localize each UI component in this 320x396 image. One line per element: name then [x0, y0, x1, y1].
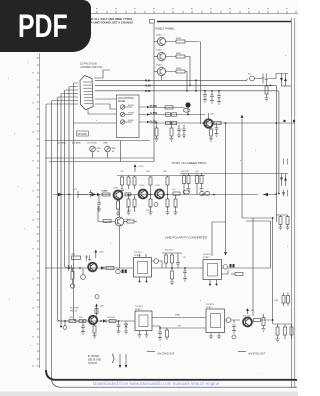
ground under C206 — [217, 102, 221, 105]
svg-text:, . .: , . . — [258, 371, 262, 375]
small parts left of diode — [78, 191, 88, 198]
svg-text:CONNECTOR CN1: CONNECTOR CN1 — [80, 65, 103, 69]
left ruler numerals — [32, 72, 34, 367]
arrow +5V at Q407 — [247, 310, 249, 314]
svg-text:G.IN: G.IN — [145, 84, 151, 88]
capacitor C404 — [176, 253, 180, 268]
svg-text:R201: R201 — [176, 38, 182, 40]
resistor pair R415 R416 above line right — [196, 174, 198, 176]
svg-text:TR41: TR41 — [139, 185, 145, 187]
junction dots polarity — [68, 267, 186, 269]
wire bus left vertical 1 — [46, 104, 78, 370]
wire Q201 base stub — [154, 41, 157, 43]
wire x225 drop — [225, 123, 227, 222]
resistor R411 below line — [166, 199, 169, 207]
resistor R301 on row1 — [165, 106, 173, 109]
svg-text:E1: E1 — [248, 74, 251, 76]
wire bus left vertical 5 — [65, 90, 79, 268]
svg-text:TLP421: TLP421 — [135, 306, 143, 308]
capacitor C410 below line — [97, 195, 101, 212]
svg-text:+12V: +12V — [99, 252, 105, 254]
opto U402 outer box — [203, 260, 222, 280]
svg-text:R33 R34: R33 R34 — [107, 317, 116, 319]
capacitor C206 hanging — [217, 91, 221, 102]
junction dots on bus — [204, 85, 271, 92]
resistor R440 after Q401 — [125, 193, 131, 196]
rail small y253 — [162, 252, 182, 254]
junction dot Q202 drop — [189, 85, 191, 87]
svg-text:PC817: PC817 — [206, 307, 213, 309]
ground stubs under U404 — [209, 333, 213, 339]
svg-text:R31: R31 — [69, 317, 74, 319]
capacitor C303 hang — [182, 125, 186, 138]
svg-text:+5V: +5V — [100, 306, 104, 308]
circle node T6 — [81, 275, 86, 280]
capacitor C401 — [120, 189, 124, 194]
wire into U402 — [166, 267, 223, 269]
svg-text:SYNC ON GREEN PROC.: SYNC ON GREEN PROC. — [172, 161, 208, 165]
pot VR2 — [105, 146, 111, 152]
svg-text:R46: R46 — [127, 210, 132, 212]
svg-text:R28: R28 — [72, 254, 77, 256]
parts under link 2 — [166, 330, 169, 337]
step rail y218 — [242, 217, 273, 219]
wire video drop x200.5 — [200, 42, 202, 125]
svg-text:R2: R2 — [178, 326, 182, 328]
transistor Q203 — [157, 67, 165, 75]
wire Q203 to R203 to drop — [166, 72, 187, 91]
down arrows annotation — [120, 354, 126, 365]
svg-text:+9V: +9V — [210, 114, 214, 116]
rail bottom right y324 — [273, 323, 292, 325]
wire bottom main y321 — [57, 320, 136, 322]
signal row with labels — [45, 140, 150, 142]
capacitor C301 below — [215, 123, 219, 136]
svg-text:+5V SYNC OUT: +5V SYNC OUT — [157, 353, 175, 356]
svg-text:G.SW: G.SW — [128, 113, 135, 115]
junction dot Q203 drop — [186, 90, 188, 92]
ground stubs under U403 — [138, 331, 142, 338]
circle node T1 — [154, 259, 159, 264]
opto U401 inner box — [138, 262, 148, 274]
svg-text:L40: L40 — [172, 189, 176, 191]
wire Q404 connections — [98, 199, 120, 268]
diode D403 — [101, 266, 104, 269]
opto U404 inner box — [211, 314, 221, 328]
dash before labels — [147, 351, 246, 353]
svg-text:Q202: Q202 — [156, 50, 162, 52]
resistor R307 hang row3 — [171, 125, 173, 128]
wire link lower U403 to U404 — [152, 326, 206, 328]
bottom scan shadow — [0, 392, 298, 396]
wire U402 lower pin — [222, 270, 229, 274]
svg-text:C4: C4 — [74, 189, 78, 191]
capacitor C205 hanging — [210, 91, 214, 101]
resistor R434 vertical — [284, 327, 287, 335]
svg-text:PC817: PC817 — [203, 257, 210, 259]
resistor R435 vertical — [290, 327, 293, 335]
junction dot rail — [272, 217, 274, 219]
junction dots bottom-left — [64, 320, 161, 329]
svg-text:B.IN: B.IN — [145, 89, 150, 93]
resistor R404 hanging — [149, 177, 152, 185]
svg-text:C44: C44 — [195, 171, 200, 173]
wire T2 to step — [228, 267, 271, 269]
wire row sw3 y123 — [150, 122, 295, 124]
resistor R422 — [106, 267, 114, 270]
resistor R215 vertical — [266, 84, 268, 87]
wire row sw1 y107.5 — [150, 107, 185, 109]
parts under link 1 — [158, 328, 162, 340]
SECTION:CHROME — [33, 9, 298, 369]
arrow +5V above Q406 — [96, 306, 98, 316]
svg-text:1W SYNC: 1W SYNC — [87, 143, 97, 145]
transistor Q401 dark — [114, 191, 123, 200]
wire x242 drop with up arrow — [241, 119, 243, 219]
opto U404 outer box — [206, 309, 225, 333]
resistor R407 below line — [117, 201, 120, 209]
svg-text:R202: R202 — [176, 53, 182, 55]
svg-text:PANEL: PANEL — [118, 100, 126, 103]
svg-text:+5V: +5V — [250, 310, 254, 312]
ground under R215 — [265, 94, 269, 101]
circle node T4 — [232, 335, 236, 339]
resistor R302 pair on row2 — [166, 113, 171, 116]
svg-text:TR42: TR42 — [155, 185, 161, 187]
opto U403 outer box — [135, 311, 152, 331]
svg-text:1K: 1K — [112, 151, 115, 153]
svg-text:PC817: PC817 — [135, 309, 142, 311]
svg-text:R35 1K: R35 1K — [70, 311, 78, 313]
ground under C205 — [210, 101, 214, 104]
main sync signal line y194.5 — [53, 193, 276, 195]
svg-text:GND: GND — [103, 143, 108, 145]
wire bus left vertical 4 — [61, 94, 78, 327]
video panel left border — [153, 24, 155, 162]
ground circle under R421 — [70, 284, 74, 288]
wire x253 drop — [252, 218, 254, 316]
resistor R202 — [176, 55, 185, 58]
wire pots row lower 1 — [45, 157, 154, 159]
svg-text:15 PIN D-SUB: 15 PIN D-SUB — [80, 62, 97, 66]
svg-text:VR1: VR1 — [97, 148, 102, 150]
svg-text:TLP421: TLP421 — [206, 304, 214, 306]
resistor R405 hanging — [166, 177, 169, 185]
capacitor C207 — [261, 74, 267, 84]
capacitor C403 series — [68, 265, 71, 271]
resistor R425 below — [171, 271, 174, 279]
wire connector to video bus row 1 — [95, 79, 247, 81]
resistor R429 — [109, 320, 116, 323]
diode pair D402 right edge — [282, 174, 286, 187]
resistor R419 upper row — [72, 256, 81, 259]
svg-text:G.SW: G.SW — [150, 111, 157, 115]
junction dots sync right — [275, 193, 279, 195]
resistor R409 below line — [133, 199, 136, 207]
resistor R403 hanging — [133, 177, 136, 185]
svg-text:LINK: LINK — [175, 315, 180, 317]
wire x270.5 drop — [270, 221, 272, 268]
opto U403 inner box — [139, 315, 148, 327]
circle node T5 — [63, 326, 67, 330]
svg-text:R.SW: R.SW — [128, 105, 135, 107]
resistor pair R318 R319 upper right — [276, 215, 287, 217]
svg-text:Q201: Q201 — [156, 35, 162, 37]
bottom border thin line — [52, 378, 298, 387]
resistor R436 — [79, 320, 86, 323]
resistor R433 vertical — [276, 327, 279, 335]
diode D401 on line — [94, 193, 100, 197]
arrowhead mid line left — [263, 193, 268, 197]
ground under C204 — [203, 100, 207, 103]
connector CN1 pins — [83, 82, 93, 104]
bracket after notes — [112, 354, 114, 363]
wire control panel row3 stub — [74, 122, 117, 124]
capacitor C408 vertical — [81, 323, 85, 335]
svg-text:C42: C42 — [120, 171, 125, 173]
capacitor C402 left — [89, 190, 93, 198]
wire connector to control panel stub 2 — [95, 104, 117, 109]
top ruler line — [85, 13, 298, 15]
transistor Q301 dark — [204, 119, 212, 127]
resistor R306 hang row3 — [156, 125, 158, 128]
opto U401 outer box — [134, 258, 152, 278]
capacitor C407 — [232, 320, 236, 333]
resistor R432 vertical — [262, 318, 265, 326]
svg-text:C45: C45 — [274, 300, 279, 302]
diode D405 vertical — [124, 321, 128, 334]
wire connector to control panel stub 1 — [95, 98, 117, 100]
connector CN1 body — [80, 76, 93, 110]
resistor R418 right of Q404 — [124, 221, 127, 223]
ground cluster right of sync — [187, 189, 191, 192]
resistor R408 below line — [127, 199, 130, 207]
wire row sw2 y114.5 — [150, 114, 205, 116]
resistor R424 vertical — [171, 255, 174, 263]
PDF badge — [0, 0, 91, 52]
wire link U403 to U404 — [152, 317, 206, 319]
bottom border heavy line — [46, 370, 297, 380]
opto U402 inner box — [208, 264, 218, 277]
junction dots sync line — [128, 194, 215, 196]
arrowheads control panel — [147, 106, 150, 123]
resistor R305 below Q301 — [210, 129, 213, 136]
transistor Q202 — [157, 52, 165, 60]
switch SW2 — [120, 112, 124, 116]
resistor pair upper right bottom — [283, 293, 285, 296]
wire connector top pin — [94, 70, 110, 78]
circle node pair — [200, 191, 204, 195]
diode D201 pair right — [282, 74, 286, 87]
parts right bottom cluster — [274, 367, 276, 369]
small marks right pair — [284, 159, 288, 165]
row labels dark — [150, 104, 157, 124]
left ruler ticks — [37, 58, 40, 366]
wire pots row lower 2 — [49, 161, 154, 163]
step wire y222 — [212, 222, 226, 256]
watermark — [93, 381, 219, 386]
wire bus left vertical 3 — [58, 97, 79, 321]
svg-text:R12 R13: R12 R13 — [165, 250, 174, 252]
wire connector to video bus row 2 — [95, 85, 276, 222]
wire bus left vertical 6 — [69, 87, 78, 269]
wire Q203 base stub — [154, 71, 157, 73]
resistor R426 at U402 — [231, 273, 235, 275]
inductor L301 ellipse — [183, 108, 189, 112]
switch labels — [128, 105, 135, 122]
arrow end x225 — [225, 222, 227, 252]
wire cross drop x196 — [195, 80, 197, 91]
arrow +12V — [134, 166, 136, 172]
resistor R412 below line — [174, 199, 177, 207]
capacitor C409 vertical — [117, 321, 121, 334]
label SP GRN box — [77, 131, 89, 136]
step rail y221 — [246, 220, 271, 222]
junction node dark blob — [185, 102, 190, 107]
transistor Q404 — [115, 217, 124, 226]
top ruler numerals — [96, 8, 288, 10]
svg-text:VR2: VR2 — [112, 148, 117, 150]
svg-text:SYNC B: SYNC B — [88, 362, 97, 365]
dark marks right of T2 — [230, 264, 232, 267]
svg-text:LINE POLARITY CONVERTER: LINE POLARITY CONVERTER — [165, 236, 208, 240]
junction dots midright — [156, 114, 296, 124]
circle node below sync — [154, 203, 158, 207]
transistor Q407 dark — [243, 318, 252, 327]
transistor Q403 dark — [155, 190, 164, 199]
main wire y268 left — [45, 267, 133, 269]
svg-text:+5V SYNC OUT: +5V SYNC OUT — [248, 353, 266, 356]
switch SW1 — [120, 105, 124, 109]
tiny labels texture sync — [120, 171, 200, 212]
svg-text:B.SW: B.SW — [128, 120, 135, 122]
video panel top heavy line — [150, 20, 155, 24]
spark gap E1 — [247, 79, 249, 81]
scan speckle noise — [8, 55, 288, 346]
diode D404 — [103, 319, 106, 322]
resistor R410 below line — [149, 199, 152, 207]
wire connector to video bus row 3 — [95, 91, 279, 194]
resistor R428 vertical under Q406 — [93, 326, 96, 333]
control panel box — [117, 95, 140, 138]
connector CN1 bottom wire — [88, 110, 117, 114]
resistor R427 — [69, 320, 76, 323]
transistor Q402 dark — [139, 190, 148, 199]
svg-text:2W BRN: 2W BRN — [72, 143, 81, 145]
svg-text:R48 R49: R48 R49 — [181, 171, 190, 173]
resistor R402 hanging — [127, 177, 130, 185]
svg-text:R32: R32 — [79, 317, 84, 319]
svg-text:SP GRN: SP GRN — [78, 133, 87, 136]
resistor R431 — [254, 319, 261, 322]
circle node T8 — [95, 295, 99, 299]
svg-text:TR40: TR40 — [113, 188, 119, 190]
circle node T2 — [223, 265, 228, 270]
svg-text:Q203: Q203 — [156, 65, 162, 67]
transistor Q201 — [157, 37, 165, 45]
wires out of control panel — [139, 107, 150, 122]
transistor Q406 dark — [89, 316, 97, 324]
capacitor C204 hanging — [203, 91, 207, 100]
junction end dot vertical 4 — [60, 326, 62, 328]
arrowhead after bus — [92, 193, 97, 197]
junction dot bus sync — [68, 194, 70, 196]
svg-text:PC PWR: PC PWR — [70, 308, 79, 310]
wire drop from pots row — [120, 141, 122, 162]
svg-text:C8: C8 — [183, 257, 186, 259]
svg-text:PC817: PC817 — [134, 255, 141, 257]
arrow +12V polarity — [95, 252, 97, 258]
wire bus left vertical 2 — [52, 101, 79, 379]
switch SW3 — [120, 120, 124, 124]
resistor R203 — [176, 70, 185, 73]
svg-text:R203: R203 — [176, 68, 182, 70]
svg-text:+12V: +12V — [138, 166, 144, 168]
wire Q202 base stub — [154, 56, 157, 58]
wire Q407 to x271 — [252, 320, 273, 322]
top ruler ticks — [88, 11, 296, 14]
svg-text:R.SW: R.SW — [150, 104, 157, 108]
stub +9V above Q301 — [208, 113, 210, 119]
circle node T7 — [116, 269, 120, 273]
wire Q202 to R202 to drop — [166, 57, 190, 86]
resistor R421 vertical — [71, 272, 74, 280]
svg-text:R.IN: R.IN — [145, 78, 150, 82]
transistor Q405 dark — [88, 263, 97, 272]
supply rail y175 — [117, 175, 205, 177]
resistor R441 on line — [173, 192, 180, 195]
svg-text:VIDEO PANEL: VIDEO PANEL — [155, 27, 175, 31]
bus signal labels — [145, 78, 151, 93]
svg-text:TLP421: TLP421 — [134, 252, 142, 254]
circle node T3 — [226, 318, 231, 323]
resistor R401 hanging — [121, 177, 124, 185]
capacitor C302 hang — [177, 125, 181, 138]
rail y173.5 right — [180, 173, 288, 175]
opto U402 bottom stubs — [210, 280, 217, 284]
capacitor C411 upper row — [85, 255, 91, 261]
svg-text:2W GRN: 2W GRN — [57, 143, 66, 145]
svg-text:TLP421: TLP421 — [203, 254, 211, 256]
svg-text:R44: R44 — [146, 171, 151, 173]
arrowhead into bus 1 — [58, 193, 63, 197]
resistor R304 right of Q301 — [214, 121, 221, 124]
wire Q203 emitter drop — [161, 76, 163, 81]
svg-text:IF A UNIT FOUND, SET A CHANGE: IF A UNIT FOUND, SET A CHANGE — [88, 20, 134, 24]
resistor R423 vertical — [165, 255, 168, 263]
wire bus left vertical 7 — [74, 83, 81, 321]
svg-text:1K: 1K — [97, 151, 100, 153]
resistor R406 on line — [102, 193, 110, 196]
diode pair small dark — [122, 270, 124, 274]
opto U401 pin stubs — [140, 254, 147, 281]
svg-text:R406: R406 — [101, 191, 107, 193]
resistor pair R413 R414 above line right — [183, 174, 185, 176]
resistor R303 pair on row3 — [166, 121, 171, 124]
right page-edge lines — [291, 18, 295, 388]
wire Q201 to R201 to drop — [166, 41, 200, 43]
resistor R201 — [176, 40, 185, 43]
svg-text:R45: R45 — [163, 171, 168, 173]
left ruler line — [39, 53, 41, 368]
wire blob to row2 — [187, 108, 189, 115]
pot VR1 — [90, 146, 96, 152]
capacitor C405 below — [183, 268, 187, 281]
ferrite bead L401 — [183, 190, 190, 194]
resistor R417 at Q404 — [103, 220, 111, 223]
diode D310 right of pair — [282, 190, 288, 197]
wire x272.7 long drop — [272, 218, 274, 324]
